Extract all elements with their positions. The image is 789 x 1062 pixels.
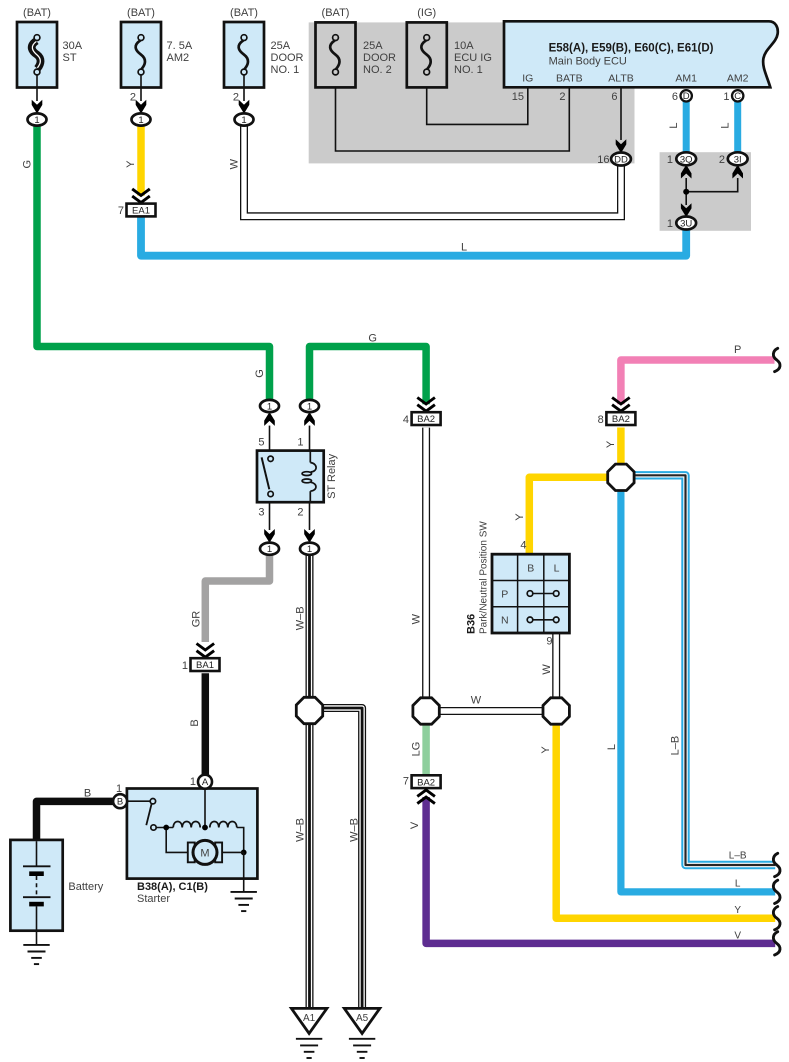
svg-text:L: L: [461, 242, 467, 254]
svg-text:L: L: [668, 122, 680, 128]
ground triangle A1: [291, 1008, 327, 1058]
svg-text:25A: 25A: [271, 40, 291, 52]
svg-text:9: 9: [546, 636, 552, 648]
svg-text:L: L: [735, 879, 741, 890]
svg-text:W: W: [410, 613, 422, 624]
connector oval DD: [597, 153, 631, 167]
svg-text:1: 1: [667, 218, 673, 230]
wire Y from fuse AM2: [137, 126, 145, 195]
connector EA1: [118, 189, 156, 217]
svg-text:ALTB: ALTB: [608, 73, 633, 85]
connector BA2 (4): [403, 398, 441, 427]
svg-text:4: 4: [403, 414, 409, 426]
svg-text:NO. 1: NO. 1: [454, 64, 483, 76]
arrow into DD: [616, 140, 626, 152]
svg-text:4: 4: [520, 540, 526, 552]
svg-text:(IG): (IG): [417, 7, 436, 19]
svg-text:P: P: [501, 588, 508, 600]
fuse 7.5A AM2 box: [121, 7, 193, 113]
battery box: [10, 840, 103, 931]
wire L from AM1: [683, 101, 690, 152]
pin circle D: [681, 90, 692, 102]
connector BA2 (7): [403, 775, 441, 803]
svg-text:LG: LG: [410, 742, 422, 757]
svg-text:G: G: [368, 333, 377, 345]
wire Y octagon2 down to right edge: [556, 724, 775, 918]
wire Y BA2 to octagon: [617, 428, 625, 466]
svg-text:G: G: [22, 160, 34, 169]
connector oval 3I: [719, 152, 748, 166]
svg-text:2: 2: [719, 154, 725, 166]
svg-text:C: C: [734, 91, 741, 102]
svg-text:2: 2: [559, 91, 565, 103]
svg-text:W–B: W–B: [349, 818, 361, 842]
svg-text:30A: 30A: [63, 40, 83, 52]
svg-text:10A: 10A: [454, 40, 474, 52]
svg-text:W: W: [541, 664, 553, 675]
curly break V: [773, 932, 780, 955]
svg-text:E58(A), E59(B), E60(C), E61(D): E58(A), E59(B), E60(C), E61(D): [549, 43, 714, 55]
starter ground: [243, 852, 245, 892]
Main Body ECU box: [504, 21, 778, 87]
wire W BA2(4) down to octagon: [422, 428, 430, 711]
svg-text:ST Relay: ST Relay: [326, 453, 338, 499]
wire G from fuse ST: [37, 126, 270, 399]
svg-text:L: L: [554, 562, 560, 574]
relay top ovals: [260, 400, 279, 413]
svg-text:3: 3: [258, 507, 264, 519]
svg-text:IG: IG: [522, 73, 533, 85]
svg-text:AM2: AM2: [167, 52, 190, 64]
wire V purple: [426, 797, 775, 943]
svg-text:G: G: [254, 369, 266, 378]
wire W fuse DOOR NO.1 to DD: [244, 126, 621, 216]
wire ALTB to DD: [620, 88, 622, 140]
svg-text:7: 7: [403, 776, 409, 788]
svg-text:7: 7: [118, 205, 124, 217]
svg-text:Main Body ECU: Main Body ECU: [549, 56, 627, 68]
svg-text:ECU IG: ECU IG: [454, 52, 492, 64]
arrows relay ovals: [265, 413, 275, 425]
svg-text:Y: Y: [514, 513, 526, 521]
octagon junction W-B: [296, 697, 322, 723]
svg-text:5: 5: [258, 437, 264, 449]
starter motor brushes: [188, 843, 195, 863]
arrow up into 3Q: [681, 166, 691, 178]
svg-text:1: 1: [116, 783, 122, 795]
svg-text:DD: DD: [614, 155, 628, 166]
relay bottom ovals: [260, 543, 279, 556]
svg-text:3I: 3I: [734, 154, 742, 165]
svg-text:AM1: AM1: [675, 73, 697, 85]
svg-text:BA2: BA2: [417, 414, 435, 425]
svg-text:25A: 25A: [363, 40, 383, 52]
svg-text:1: 1: [267, 544, 272, 555]
wire P pink: [621, 360, 775, 404]
svg-text:M: M: [200, 848, 209, 860]
starter circle A: [190, 775, 212, 789]
svg-text:DOOR: DOOR: [363, 52, 396, 64]
svg-text:Y: Y: [734, 905, 741, 916]
relay coil pins 1-2: [309, 451, 311, 463]
svg-text:Y: Y: [125, 160, 137, 168]
svg-text:AM2: AM2: [727, 73, 749, 85]
ground triangle A5: [344, 1008, 380, 1058]
svg-text:BA1: BA1: [196, 660, 214, 671]
wire GR relay to BA1: [205, 555, 269, 642]
battery ground: [36, 931, 38, 945]
svg-text:(BAT): (BAT): [230, 7, 258, 19]
connector BA1: [182, 644, 220, 673]
svg-text:1: 1: [297, 437, 303, 449]
svg-text:1: 1: [190, 776, 196, 788]
svg-text:1: 1: [307, 544, 312, 555]
gray background region right (3Q/3I/3U): [660, 152, 751, 231]
svg-text:BA2: BA2: [612, 414, 630, 425]
connector oval 3U: [667, 217, 696, 231]
wire fuse DOOR NO.2 to BATB: [336, 75, 570, 151]
svg-text:BATB: BATB: [556, 73, 583, 85]
connector oval fuse1: [28, 113, 47, 126]
wire L-B: [632, 475, 775, 865]
svg-text:L: L: [719, 122, 731, 128]
starter hold-in coil: [210, 822, 237, 828]
octagon junction W left: [413, 698, 439, 724]
svg-text:P: P: [734, 344, 741, 356]
svg-text:NO. 2: NO. 2: [363, 64, 392, 76]
svg-text:D: D: [683, 91, 690, 102]
curly break Y: [773, 907, 780, 930]
arrow down into 3U: [681, 204, 691, 216]
svg-text:1: 1: [34, 115, 39, 126]
svg-text:Y: Y: [540, 746, 552, 754]
svg-text:Battery: Battery: [68, 881, 103, 893]
starter motor box: [127, 789, 258, 879]
connector oval fuse3: [235, 113, 254, 126]
relay pin wires: [269, 426, 271, 457]
junction wires 3Q 3I 3U: [686, 178, 738, 192]
svg-text:Starter: Starter: [137, 893, 170, 905]
svg-text:6: 6: [672, 91, 678, 103]
svg-text:1: 1: [267, 402, 272, 413]
svg-text:L–B: L–B: [670, 736, 682, 756]
wire L octagon down right: [621, 478, 775, 892]
svg-text:V: V: [734, 931, 741, 942]
svg-text:B: B: [84, 788, 91, 800]
wire W between octagons: [426, 707, 556, 715]
starter switch contact: [127, 800, 150, 802]
svg-text:8: 8: [598, 414, 604, 426]
fuse 30A ST box: [17, 7, 83, 113]
svg-text:1: 1: [138, 115, 143, 126]
Park/Neutral position SW box: [492, 554, 569, 633]
svg-text:3U: 3U: [680, 219, 692, 230]
svg-text:Park/Neutral Position SW: Park/Neutral Position SW: [478, 521, 489, 634]
starter circle B: [113, 783, 127, 808]
svg-text:W: W: [471, 695, 482, 707]
fuse 10A ECU IG NO.1 box: [407, 7, 492, 87]
svg-text:1: 1: [182, 660, 188, 672]
svg-text:DOOR: DOOR: [271, 52, 304, 64]
wire LG octagon to BA2(7): [422, 724, 430, 776]
svg-text:A5: A5: [356, 1013, 369, 1024]
wire W-B relay pin2 down to A1: [306, 555, 314, 1008]
connector oval 3Q: [667, 152, 696, 166]
svg-text:NO. 1: NO. 1: [271, 64, 300, 76]
svg-text:7. 5A: 7. 5A: [167, 40, 193, 52]
wire Y octagon to B36 pin4: [529, 477, 621, 554]
svg-text:A: A: [202, 777, 209, 788]
svg-text:6: 6: [611, 91, 617, 103]
svg-text:1: 1: [667, 154, 673, 166]
wire L from AM2: [734, 101, 741, 152]
fuse 25A DOOR NO.1 box: [224, 7, 304, 113]
relay switch contact pins 5-3: [268, 456, 273, 461]
curly break L: [773, 880, 780, 903]
octagon junction W right: [543, 698, 569, 724]
connector BA2 (8): [598, 398, 636, 427]
starter motor M: [193, 840, 217, 864]
arrow up into 3I: [733, 166, 743, 178]
svg-text:L: L: [606, 744, 618, 750]
octagon junction top right: [608, 464, 634, 490]
svg-text:Y: Y: [605, 440, 617, 448]
curly break L-B: [773, 853, 780, 876]
svg-text:L–B: L–B: [729, 851, 747, 862]
wire W B36 pin9 to octagon: [552, 633, 560, 711]
svg-text:B38(A), C1(B): B38(A), C1(B): [137, 881, 208, 893]
svg-text:3Q: 3Q: [680, 154, 693, 165]
wire W-B branch octagon to A5: [310, 708, 363, 1009]
svg-text:15: 15: [512, 91, 524, 103]
junction dot: [683, 189, 689, 195]
svg-text:V: V: [409, 821, 421, 829]
connector oval fuse2: [132, 113, 151, 126]
wire L from EA1 to 3U: [141, 216, 686, 255]
svg-text:W–B: W–B: [294, 606, 306, 630]
wire B battery to starter B: [37, 801, 114, 843]
svg-text:2: 2: [297, 507, 303, 519]
svg-text:EA1: EA1: [132, 206, 150, 217]
svg-text:2: 2: [130, 92, 136, 104]
gray background region top: [309, 22, 635, 163]
starter pull-in coil: [173, 822, 200, 828]
pin circle C: [732, 90, 743, 102]
svg-text:(BAT): (BAT): [127, 7, 155, 19]
fuse 25A DOOR NO.2 box: [316, 7, 397, 87]
wire B BA1 to starter A: [202, 673, 210, 775]
svg-text:1: 1: [723, 91, 729, 103]
svg-text:B36: B36: [466, 614, 478, 634]
svg-text:B: B: [189, 719, 201, 726]
curly break pink: [773, 348, 780, 371]
svg-text:B: B: [527, 562, 534, 574]
ST relay box: [257, 451, 324, 503]
svg-text:GR: GR: [190, 611, 202, 628]
wire G to BA2: [310, 347, 427, 405]
svg-text:A1: A1: [303, 1013, 316, 1024]
svg-text:1: 1: [241, 115, 246, 126]
svg-text:2: 2: [233, 92, 239, 104]
svg-text:W–B: W–B: [294, 818, 306, 842]
svg-text:N: N: [501, 615, 509, 627]
svg-text:BA2: BA2: [417, 777, 435, 788]
svg-text:1: 1: [307, 402, 312, 413]
svg-text:(BAT): (BAT): [23, 7, 51, 19]
svg-text:16: 16: [597, 154, 609, 166]
svg-text:W: W: [228, 158, 240, 169]
svg-text:(BAT): (BAT): [322, 7, 350, 19]
battery cell plates: [36, 841, 38, 866]
svg-text:B: B: [117, 797, 123, 808]
wire fuse ECU IG to IG: [427, 75, 528, 125]
svg-text:ST: ST: [63, 52, 77, 64]
